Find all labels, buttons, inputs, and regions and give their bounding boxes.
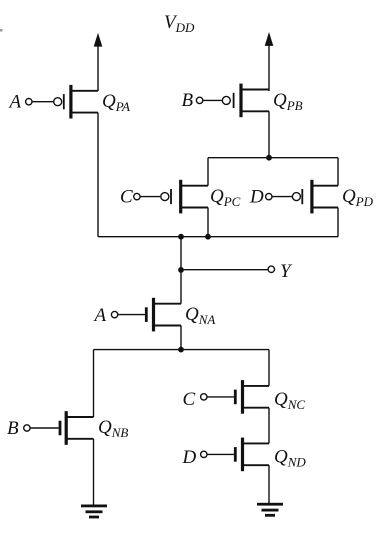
svg-text:A: A <box>93 305 107 326</box>
junction dot NMOS rail <box>178 347 184 353</box>
wire B to QNB gate <box>30 427 58 429</box>
wire QPA drain down <box>97 113 99 237</box>
svg-text:QPC: QPC <box>210 186 241 209</box>
wire QPC source up <box>207 158 209 186</box>
wire QPD source up <box>337 158 339 186</box>
svg-text:B: B <box>182 90 194 111</box>
input terminal A (middle) <box>111 311 117 317</box>
svg-text:QPB: QPB <box>273 90 303 113</box>
wire QPC drain down <box>207 208 209 237</box>
junction dot QPB drain <box>266 155 272 161</box>
wire QNB source to ground <box>93 439 95 506</box>
svg-text:C: C <box>183 389 196 410</box>
input terminal B (top) <box>196 97 202 103</box>
junction dot rail/stem <box>178 234 184 240</box>
wire D to QND gate <box>207 453 234 455</box>
wire A to QPA gate <box>32 101 53 103</box>
wire QNC to QND <box>268 408 270 444</box>
wire to output Y <box>181 269 268 271</box>
wire QNA source down <box>180 326 182 350</box>
wire output stem <box>180 237 182 304</box>
svg-text:QND: QND <box>274 447 306 470</box>
input terminal B (lower) <box>24 425 30 431</box>
svg-text:QNA: QNA <box>185 304 215 327</box>
transistor QNC (NMOS) <box>234 380 269 414</box>
wire B to QPB gate <box>203 99 222 101</box>
scan speck at left edge <box>0 29 3 32</box>
wire top rail of QPC/QPD <box>208 157 338 159</box>
svg-text:B: B <box>7 418 19 439</box>
wire rail down to QNB <box>93 350 95 417</box>
transistor QPD (PMOS) <box>292 180 338 214</box>
wire C to QPC gate <box>140 196 160 198</box>
junction dot rail/QPC <box>205 234 211 240</box>
wire C to QNC gate <box>207 396 234 398</box>
wire D to QPD gate <box>272 196 292 198</box>
wire pull-up output rail <box>98 236 338 238</box>
svg-text:QNB: QNB <box>98 417 128 440</box>
svg-text:Y: Y <box>280 261 293 282</box>
VDD arrow (above QPA) <box>94 33 103 91</box>
transistor QPC (PMOS) <box>161 180 208 214</box>
input terminal C (lower) <box>201 394 207 400</box>
wire A to QNA gate <box>118 314 145 316</box>
junction dot Y tap <box>178 267 184 273</box>
wire NMOS rail <box>94 349 270 351</box>
wire QPB drain down <box>268 111 270 157</box>
svg-text:C: C <box>120 187 133 208</box>
transistor QPB (PMOS) <box>222 84 269 118</box>
svg-text:A: A <box>8 92 22 113</box>
wire QND source to ground <box>268 465 270 503</box>
svg-text:QNC: QNC <box>274 389 305 412</box>
ground (right) <box>257 503 283 517</box>
ground (left) <box>81 505 107 519</box>
transistor QNA (NMOS) <box>145 298 181 332</box>
transistor QNB (NMOS) <box>59 411 94 445</box>
input terminal D (upper) <box>266 193 272 199</box>
VDD arrow (above QPB) <box>265 32 274 91</box>
output terminal Y <box>268 266 274 272</box>
svg-text:VDD: VDD <box>164 12 195 35</box>
svg-text:D: D <box>182 447 197 468</box>
transistor QPA (PMOS) <box>54 85 98 119</box>
svg-text:QPD: QPD <box>342 186 374 209</box>
svg-text:D: D <box>249 187 264 208</box>
input terminal D (lower) <box>201 451 207 457</box>
input terminal C (upper) <box>134 193 140 199</box>
input terminal A (top) <box>26 99 32 105</box>
svg-text:QPA: QPA <box>102 91 130 114</box>
wire rail down to QNC <box>268 350 270 386</box>
transistor QND (NMOS) <box>234 438 269 472</box>
wire QPD drain down <box>337 208 339 237</box>
